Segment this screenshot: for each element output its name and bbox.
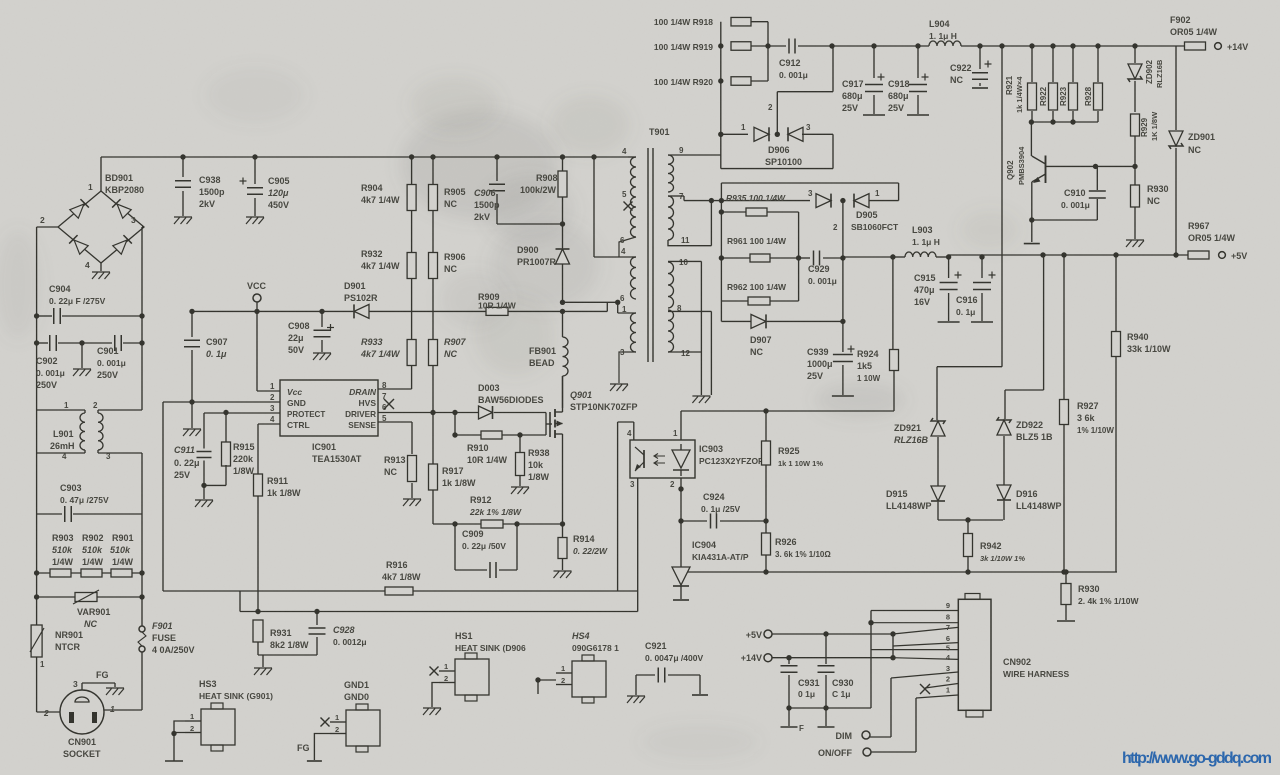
svg-text:33k 1/10W: 33k 1/10W [1127, 344, 1171, 354]
svg-text:2: 2 [670, 480, 675, 489]
svg-text:STP10NK70ZFP: STP10NK70ZFP [570, 402, 638, 412]
svg-text:100 1/4W R918: 100 1/4W R918 [654, 17, 713, 27]
svg-text:0. 001μ: 0. 001μ [1061, 200, 1090, 210]
svg-text:IC903: IC903 [699, 444, 723, 454]
svg-text:D003: D003 [478, 383, 500, 393]
svg-text:5: 5 [622, 190, 627, 199]
svg-text:1500p: 1500p [474, 200, 500, 210]
svg-text:0. 22μ: 0. 22μ [174, 458, 200, 468]
svg-text:1/4W: 1/4W [52, 557, 74, 567]
svg-text:26mH: 26mH [50, 441, 75, 451]
svg-text:1/8W: 1/8W [528, 472, 550, 482]
svg-text:2: 2 [561, 676, 565, 685]
svg-text:6: 6 [620, 236, 625, 245]
svg-text:C922: C922 [950, 63, 972, 73]
svg-text:R927: R927 [1077, 401, 1099, 411]
svg-text:1: 1 [88, 182, 93, 192]
svg-text:HS3: HS3 [199, 679, 217, 689]
svg-text:250V: 250V [97, 370, 118, 380]
svg-text:BAW56DIODES: BAW56DIODES [478, 395, 544, 405]
svg-text:1k5: 1k5 [857, 361, 872, 371]
svg-text:D907: D907 [750, 335, 772, 345]
svg-text:NC: NC [444, 199, 457, 209]
svg-text:HEAT SINK (G901): HEAT SINK (G901) [199, 691, 273, 701]
svg-text:IC904: IC904 [692, 540, 716, 550]
svg-text:4: 4 [622, 147, 627, 156]
svg-text:1: 1 [40, 660, 45, 669]
svg-text:0. 1μ: 0. 1μ [206, 349, 227, 359]
svg-text:R942: R942 [980, 541, 1002, 551]
svg-text:CTRL: CTRL [287, 420, 310, 430]
svg-text:NTCR: NTCR [55, 642, 80, 652]
svg-text:RLZ16B: RLZ16B [894, 435, 929, 445]
svg-text:0. 47μ /275V: 0. 47μ /275V [60, 495, 109, 505]
svg-text:1/4W: 1/4W [112, 557, 134, 567]
svg-text:D901: D901 [344, 281, 366, 291]
svg-text:CN902: CN902 [1003, 657, 1031, 667]
svg-text:4: 4 [627, 429, 632, 438]
svg-text:1: 1 [561, 664, 565, 673]
svg-text:1: 1 [875, 189, 880, 198]
svg-text:R913: R913 [384, 455, 406, 465]
svg-text:100 1/4W R919: 100 1/4W R919 [654, 42, 713, 52]
svg-text:3: 3 [620, 348, 625, 357]
svg-text:+14V: +14V [1227, 42, 1248, 52]
svg-text:4: 4 [62, 452, 67, 461]
svg-text:1: 1 [673, 429, 678, 438]
svg-text:510k: 510k [82, 545, 103, 555]
svg-text:+5V: +5V [746, 630, 762, 640]
svg-text:R928: R928 [1084, 86, 1093, 106]
svg-text:R910: R910 [467, 443, 489, 453]
svg-text:7: 7 [946, 623, 950, 632]
svg-text:PROTECT: PROTECT [287, 410, 325, 419]
svg-text:OR05 1/4W: OR05 1/4W [1188, 233, 1236, 243]
svg-text:1: 1 [741, 123, 746, 132]
svg-text:3: 3 [946, 664, 950, 673]
svg-text:HVS: HVS [359, 398, 377, 408]
svg-text:R922: R922 [1039, 86, 1048, 106]
svg-text:4k7 1/4W: 4k7 1/4W [361, 261, 400, 271]
svg-text:10R 1/4W: 10R 1/4W [478, 301, 517, 311]
svg-text:510k: 510k [110, 545, 131, 555]
svg-text:10: 10 [679, 258, 688, 267]
svg-text:GND0: GND0 [344, 692, 369, 702]
svg-text:R933: R933 [361, 337, 383, 347]
svg-text:C912: C912 [779, 58, 801, 68]
svg-text:R923: R923 [1059, 86, 1068, 106]
svg-text:μ: μ [282, 188, 289, 198]
svg-text:FG: FG [297, 743, 310, 753]
svg-text:120: 120 [268, 188, 283, 198]
svg-text:0. 22/2W: 0. 22/2W [573, 546, 608, 556]
svg-text:R912: R912 [470, 495, 492, 505]
svg-text:R924: R924 [857, 349, 879, 359]
svg-text:PMBS3904: PMBS3904 [1017, 146, 1026, 185]
svg-text:0 1μ: 0 1μ [798, 689, 815, 699]
svg-text:R935 100 1/4W: R935 100 1/4W [726, 193, 786, 203]
svg-text:GND1: GND1 [344, 680, 369, 690]
svg-text:2kV: 2kV [474, 212, 490, 222]
svg-text:C906: C906 [474, 188, 497, 198]
svg-text:T901: T901 [649, 127, 670, 137]
svg-text:2: 2 [43, 708, 49, 718]
svg-text:LL4148WP: LL4148WP [1016, 501, 1062, 511]
svg-text:Q901: Q901 [570, 390, 592, 400]
svg-text:D900: D900 [517, 245, 539, 255]
svg-text:1/4W: 1/4W [82, 557, 104, 567]
svg-text:R967: R967 [1188, 221, 1210, 231]
svg-text:CN901: CN901 [68, 737, 96, 747]
svg-text:SENSE: SENSE [348, 421, 376, 430]
svg-text:DRIVER: DRIVER [345, 410, 376, 419]
svg-text:D905: D905 [856, 210, 878, 220]
svg-text:R908: R908 [536, 173, 558, 183]
svg-text:11: 11 [681, 236, 690, 245]
svg-text:2: 2 [93, 401, 98, 410]
svg-text:1: 1 [64, 401, 69, 410]
svg-text:ZD901: ZD901 [1188, 132, 1215, 142]
svg-text:SB1060FCT: SB1060FCT [851, 222, 899, 232]
svg-text:1K 1/8W: 1K 1/8W [1150, 111, 1159, 141]
svg-text:VAR901: VAR901 [77, 607, 110, 617]
svg-text:C921: C921 [645, 641, 667, 651]
svg-text:R917: R917 [442, 466, 464, 476]
svg-text:C918: C918 [888, 79, 910, 89]
svg-text:0. 22μ F /275V: 0. 22μ F /275V [49, 296, 106, 306]
svg-text:BLZ5 1B: BLZ5 1B [1016, 432, 1053, 442]
svg-text:1k 1 10W 1%: 1k 1 10W 1% [778, 459, 823, 468]
svg-text:R915: R915 [233, 442, 255, 452]
svg-text:2. 4k 1% 1/10W: 2. 4k 1% 1/10W [1078, 596, 1139, 606]
svg-text:680μ: 680μ [888, 91, 909, 101]
svg-text:NC: NC [950, 75, 963, 85]
svg-text:R902: R902 [82, 533, 104, 543]
svg-text:25V: 25V [888, 103, 904, 113]
svg-text:9: 9 [946, 601, 950, 610]
svg-text:10R 1/4W: 10R 1/4W [467, 455, 508, 465]
svg-text:C903: C903 [60, 483, 82, 493]
svg-text:3: 3 [630, 480, 635, 489]
svg-text:VCC: VCC [247, 281, 267, 291]
svg-text:F: F [799, 724, 804, 733]
svg-text:L904: L904 [929, 19, 950, 29]
svg-text:ON/OFF: ON/OFF [818, 748, 852, 758]
svg-text:510k: 510k [52, 545, 73, 555]
svg-text:F902: F902 [1170, 15, 1191, 25]
svg-text:4: 4 [270, 415, 275, 424]
svg-text:C917: C917 [842, 79, 864, 89]
svg-text:KBP2080: KBP2080 [105, 185, 144, 195]
svg-text:R962 100 1/4W: R962 100 1/4W [727, 282, 787, 292]
svg-text:0. 1μ: 0. 1μ [956, 307, 975, 317]
svg-text:1500p: 1500p [199, 187, 225, 197]
svg-text:16V: 16V [914, 297, 930, 307]
svg-text:4k7 1/4W: 4k7 1/4W [361, 195, 400, 205]
svg-text:FB901: FB901 [529, 346, 556, 356]
svg-text:HS1: HS1 [455, 631, 473, 641]
svg-text:1: 1 [270, 382, 275, 391]
svg-text:6: 6 [946, 634, 950, 643]
svg-text:HEAT SINK (D906: HEAT SINK (D906 [455, 643, 526, 653]
svg-text:C905: C905 [268, 176, 290, 186]
svg-text:0. 001μ: 0. 001μ [779, 70, 808, 80]
svg-text:C916: C916 [956, 295, 978, 305]
svg-text:R905: R905 [444, 187, 466, 197]
svg-text:10k: 10k [528, 460, 544, 470]
svg-text:2: 2 [335, 725, 339, 734]
svg-text:3: 3 [131, 215, 136, 225]
svg-text:1% 1/10W: 1% 1/10W [1077, 426, 1114, 435]
svg-text:4: 4 [85, 260, 90, 270]
svg-text:2: 2 [40, 215, 45, 225]
svg-text:R961 100 1/4W: R961 100 1/4W [727, 236, 787, 246]
svg-text:R930: R930 [1078, 584, 1100, 594]
svg-text:C904: C904 [49, 284, 71, 294]
svg-text:250V: 250V [36, 380, 57, 390]
svg-text:2: 2 [190, 724, 194, 733]
svg-text:R925: R925 [778, 446, 800, 456]
svg-text:GND: GND [287, 398, 306, 408]
svg-text:NC: NC [750, 347, 763, 357]
svg-text:R926: R926 [775, 537, 797, 547]
svg-text:Q902: Q902 [1006, 160, 1015, 180]
svg-text:R906: R906 [444, 252, 466, 262]
svg-text:0. 001μ: 0. 001μ [36, 368, 65, 378]
svg-text:100k/2W: 100k/2W [520, 185, 557, 195]
svg-text:R930: R930 [1147, 184, 1169, 194]
svg-text:PS102R: PS102R [344, 293, 378, 303]
svg-text:R929: R929 [1140, 117, 1149, 137]
svg-text:L903: L903 [912, 225, 933, 235]
svg-text:9: 9 [679, 146, 684, 155]
svg-text:4: 4 [621, 247, 626, 256]
svg-text:22k 1% 1/8W: 22k 1% 1/8W [469, 507, 522, 517]
svg-text:D906: D906 [768, 145, 790, 155]
svg-text:1000μ: 1000μ [807, 359, 833, 369]
svg-text:D915: D915 [886, 489, 908, 499]
svg-text:TEA1530AT: TEA1530AT [312, 454, 362, 464]
svg-text:WIRE HARNESS: WIRE HARNESS [1003, 669, 1069, 679]
svg-text:C939: C939 [807, 347, 829, 357]
svg-text:1: 1 [444, 662, 448, 671]
svg-text:5: 5 [946, 644, 950, 653]
svg-text:ZD922: ZD922 [1016, 420, 1043, 430]
svg-text:1k 1/4W×4: 1k 1/4W×4 [1015, 76, 1024, 113]
svg-text:470μ: 470μ [914, 285, 935, 295]
svg-text:NC: NC [84, 619, 97, 629]
svg-text:IC901: IC901 [312, 442, 336, 452]
svg-text:ZD921: ZD921 [894, 423, 921, 433]
svg-text:FUSE: FUSE [152, 633, 176, 643]
svg-text:C910: C910 [1064, 188, 1086, 198]
svg-text:0. 0012μ: 0. 0012μ [333, 637, 367, 647]
svg-text:C928: C928 [333, 625, 355, 635]
svg-text:C924: C924 [703, 492, 725, 502]
svg-text:R932: R932 [361, 249, 383, 259]
svg-text:25V: 25V [807, 371, 823, 381]
svg-text:3: 3 [106, 452, 111, 461]
svg-text:1: 1 [190, 712, 194, 721]
svg-text:2: 2 [946, 675, 950, 684]
svg-text:FG: FG [96, 670, 109, 680]
svg-text:C902: C902 [36, 356, 58, 366]
svg-text:+5V: +5V [1231, 251, 1247, 261]
svg-text:C909: C909 [462, 529, 484, 539]
svg-text:4k7 1/4W: 4k7 1/4W [360, 349, 401, 359]
svg-text:KIA431A-AT/P: KIA431A-AT/P [692, 552, 749, 562]
svg-text:1. 1μ H: 1. 1μ H [929, 31, 957, 41]
svg-text:C911: C911 [174, 445, 195, 455]
svg-text:1: 1 [110, 704, 115, 714]
svg-text:1: 1 [622, 305, 627, 314]
svg-text:NC: NC [444, 349, 457, 359]
svg-text:680μ: 680μ [842, 91, 863, 101]
svg-text:450V: 450V [268, 200, 289, 210]
svg-text:DIM: DIM [836, 731, 853, 741]
svg-text:0. 001μ: 0. 001μ [808, 276, 837, 286]
svg-text:1k 1/8W: 1k 1/8W [267, 488, 301, 498]
svg-text:PR1007R: PR1007R [517, 257, 557, 267]
svg-text:R911: R911 [267, 476, 288, 486]
svg-text:C929: C929 [808, 264, 830, 274]
svg-text:NC: NC [1188, 145, 1201, 155]
svg-text:R914: R914 [573, 534, 595, 544]
svg-text:3: 3 [808, 189, 813, 198]
svg-text:25V: 25V [842, 103, 858, 113]
svg-text:RLZ16B: RLZ16B [1155, 59, 1164, 88]
svg-text:2: 2 [768, 103, 773, 112]
svg-text:D916: D916 [1016, 489, 1038, 499]
svg-text:3: 3 [806, 123, 811, 132]
svg-text:1. 1μ H: 1. 1μ H [912, 237, 940, 247]
svg-text:R938: R938 [528, 448, 550, 458]
svg-text:3k 1/10W 1%: 3k 1/10W 1% [980, 554, 1025, 563]
svg-text:1: 1 [946, 686, 950, 695]
svg-text:3 6k: 3 6k [1077, 413, 1096, 423]
svg-text:220k: 220k [233, 454, 254, 464]
svg-text:2: 2 [833, 223, 838, 232]
svg-text:C901: C901 [97, 346, 119, 356]
svg-text:0. 22μ /50V: 0. 22μ /50V [462, 541, 506, 551]
svg-text:1 10W: 1 10W [857, 374, 881, 383]
svg-text:BEAD: BEAD [529, 358, 555, 368]
svg-text:C931: C931 [798, 678, 820, 688]
svg-text:1: 1 [335, 713, 339, 722]
svg-text:3: 3 [73, 679, 78, 689]
svg-text:R931: R931 [270, 628, 292, 638]
svg-text:50V: 50V [288, 345, 304, 355]
svg-text:3. 6k 1% 1/10Ω: 3. 6k 1% 1/10Ω [775, 550, 831, 559]
svg-text:0. 1μ /25V: 0. 1μ /25V [701, 504, 741, 514]
svg-text:12: 12 [681, 349, 690, 358]
svg-text:L901: L901 [53, 429, 74, 439]
svg-text:8k2 1/8W: 8k2 1/8W [270, 640, 309, 650]
svg-text:Vcc: Vcc [287, 387, 302, 397]
svg-text:C930: C930 [832, 678, 854, 688]
svg-text:C 1μ: C 1μ [832, 689, 850, 699]
svg-text:SOCKET: SOCKET [63, 749, 101, 759]
svg-text:2: 2 [270, 393, 275, 402]
svg-text:OR05 1/4W: OR05 1/4W [1170, 27, 1218, 37]
svg-text:1k 1/8W: 1k 1/8W [442, 478, 476, 488]
svg-text:DRAIN: DRAIN [349, 387, 377, 397]
svg-text:SP10100: SP10100 [765, 157, 802, 167]
svg-text:8: 8 [946, 613, 950, 622]
svg-text:C907: C907 [206, 337, 228, 347]
svg-text:R904: R904 [361, 183, 383, 193]
svg-text:+14V: +14V [741, 653, 762, 663]
svg-text:C908: C908 [288, 321, 310, 331]
svg-text:NC: NC [444, 264, 457, 274]
svg-text:BD901: BD901 [105, 173, 133, 183]
svg-text:NR901: NR901 [55, 630, 83, 640]
svg-text:NC: NC [384, 467, 397, 477]
svg-text:090G6178 1: 090G6178 1 [572, 643, 619, 653]
svg-text:HS4: HS4 [572, 631, 590, 641]
svg-text:6: 6 [620, 294, 625, 303]
svg-text:4 0A/250V: 4 0A/250V [152, 645, 195, 655]
svg-text:22μ: 22μ [288, 333, 304, 343]
svg-text:ZD902: ZD902 [1145, 59, 1154, 84]
svg-text:R907: R907 [444, 337, 467, 347]
svg-text:C915: C915 [914, 273, 936, 283]
svg-text:2: 2 [444, 674, 448, 683]
svg-text:F901: F901 [152, 621, 173, 631]
svg-text:2kV: 2kV [199, 199, 215, 209]
svg-text:R901: R901 [112, 533, 134, 543]
svg-text:100 1/4W R920: 100 1/4W R920 [654, 77, 713, 87]
svg-text:4k7 1/8W: 4k7 1/8W [382, 572, 421, 582]
svg-text:http://www.go-gddq.com: http://www.go-gddq.com [1122, 750, 1272, 767]
svg-text:C938: C938 [199, 175, 221, 185]
svg-text:NC: NC [1147, 196, 1160, 206]
svg-text:R916: R916 [386, 560, 408, 570]
svg-text:LL4148WP: LL4148WP [886, 501, 932, 511]
svg-text:R921: R921 [1005, 75, 1014, 95]
svg-text:PC123X2YFZOF: PC123X2YFZOF [699, 456, 763, 466]
svg-text:0. 0047μ /400V: 0. 0047μ /400V [645, 653, 703, 663]
svg-text:R940: R940 [1127, 332, 1149, 342]
svg-text:3: 3 [270, 404, 275, 413]
svg-text:25V: 25V [174, 470, 190, 480]
svg-text:1/8W: 1/8W [233, 466, 255, 476]
svg-text:0. 001μ: 0. 001μ [97, 358, 126, 368]
svg-text:R903: R903 [52, 533, 74, 543]
